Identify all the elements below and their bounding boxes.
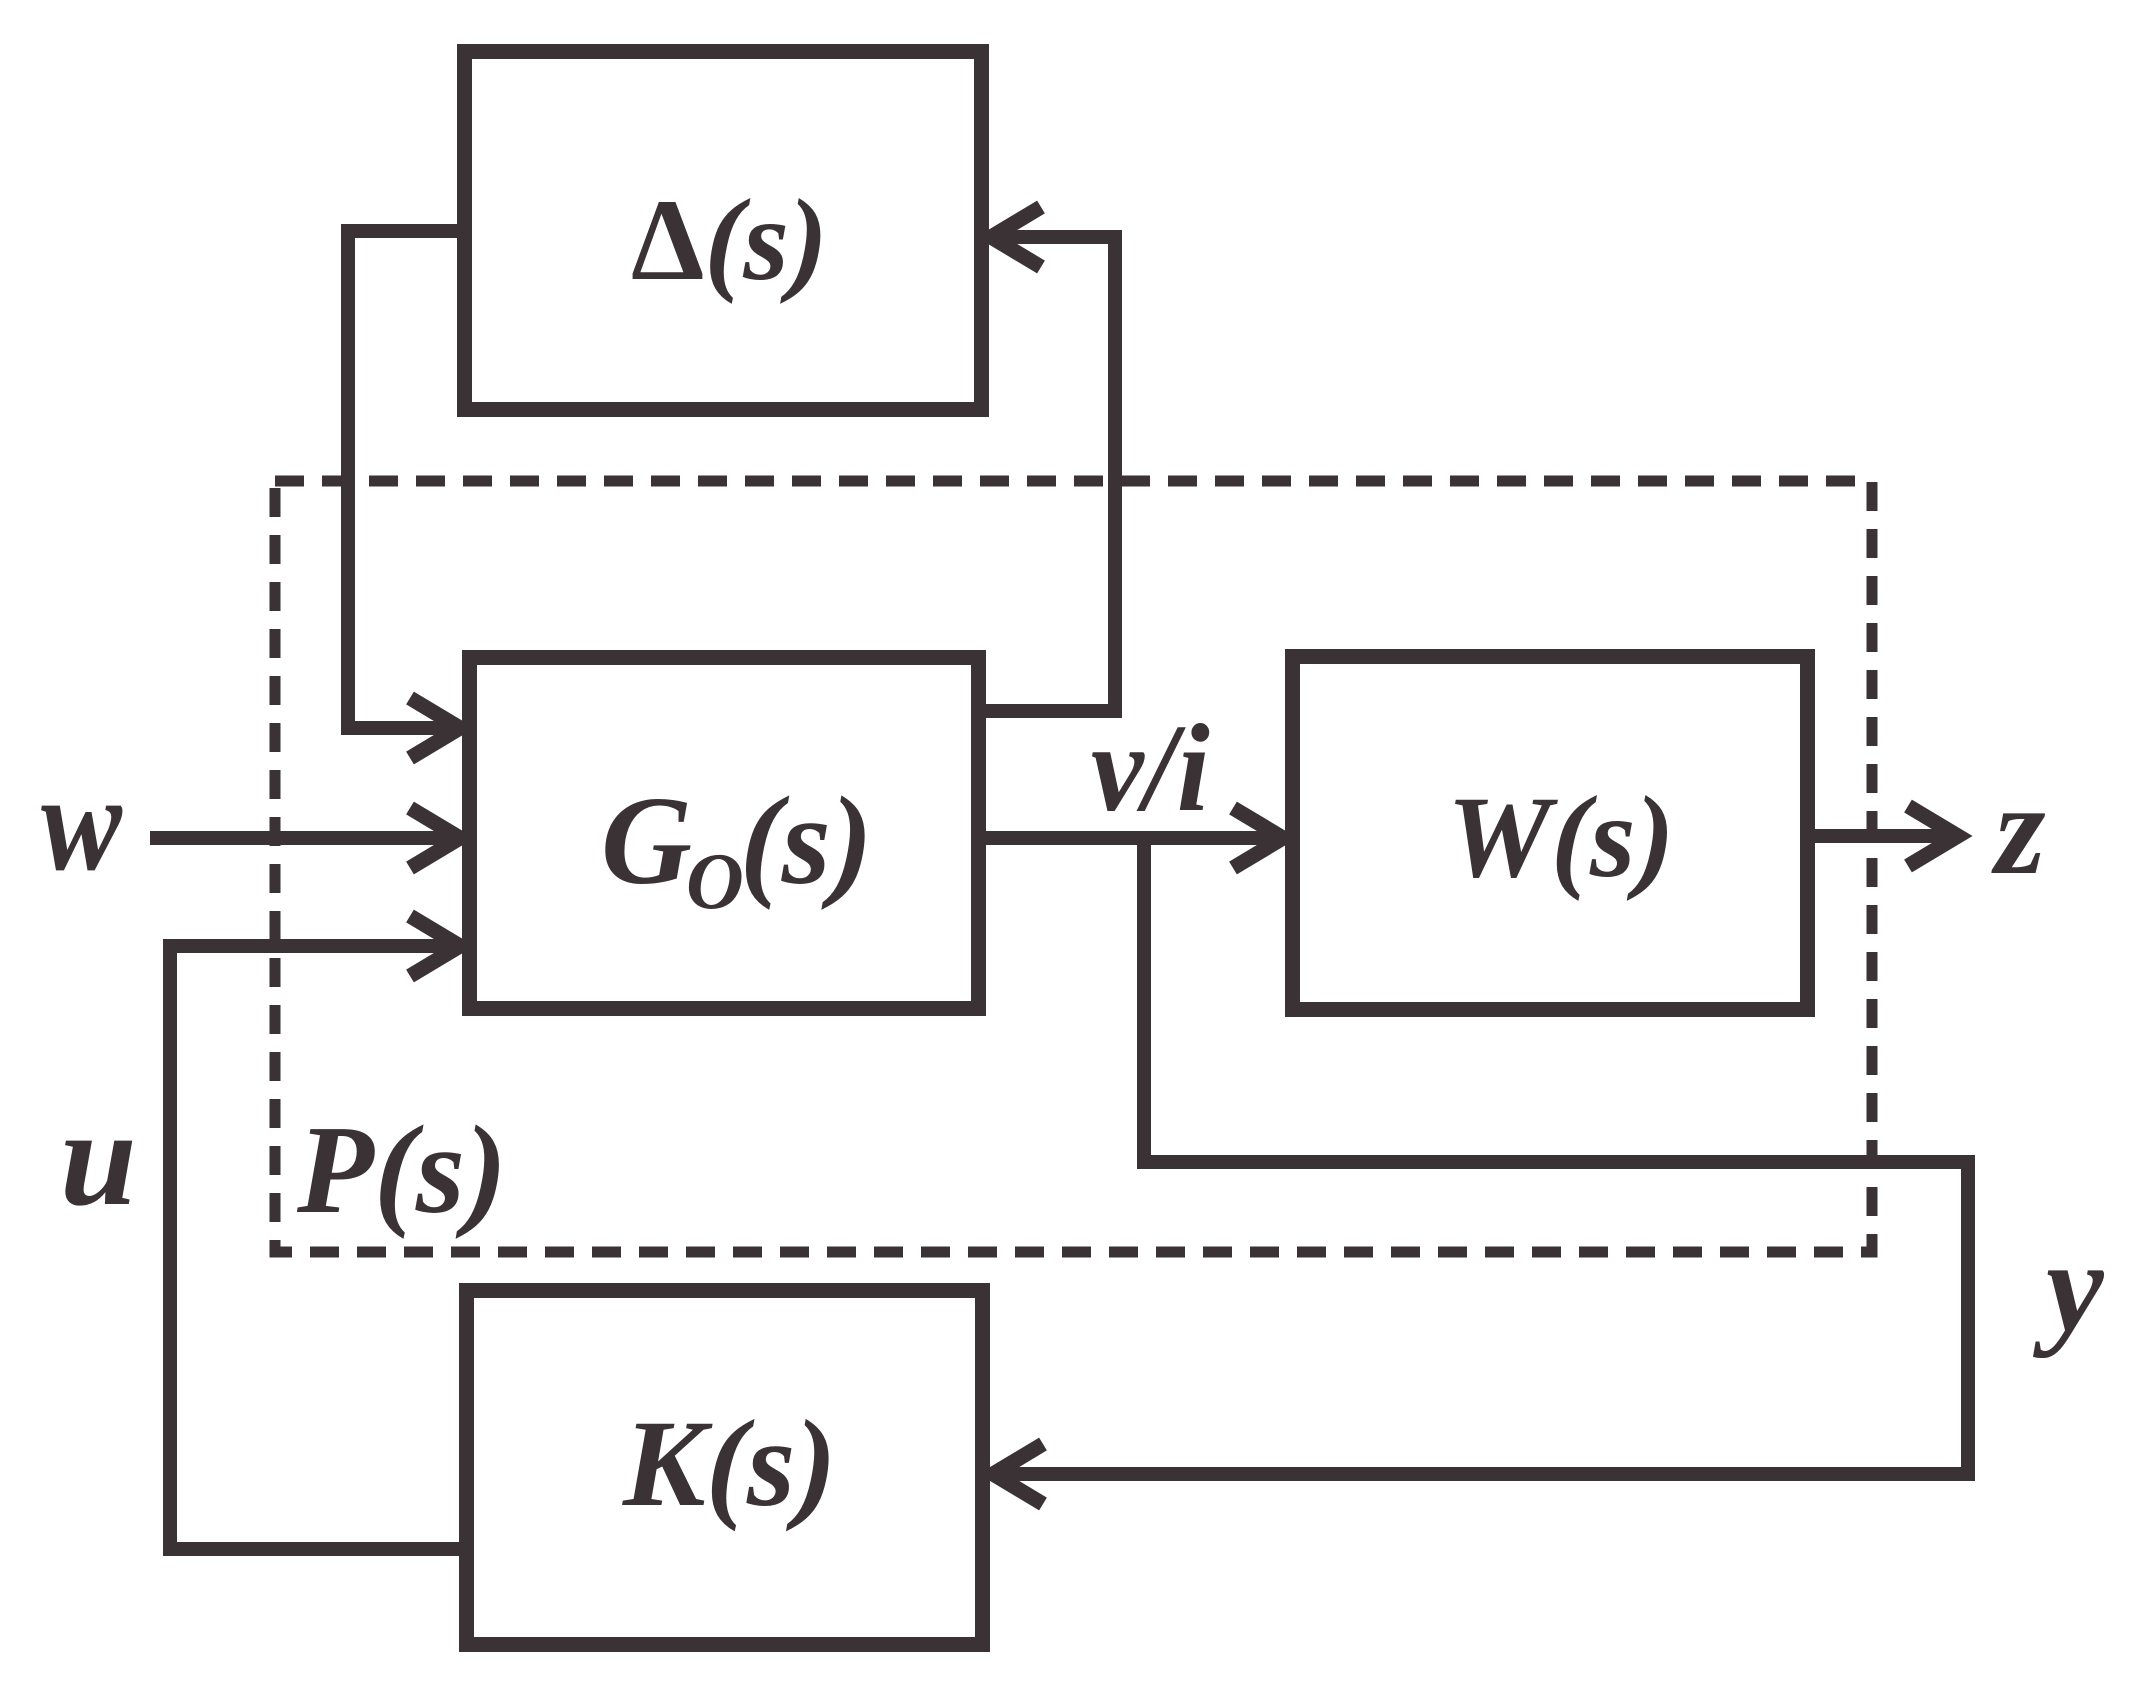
arrowhead z — [1908, 806, 1958, 866]
block W(s) — [1293, 657, 1808, 1010]
svg-text:v/i: v/i — [1091, 699, 1210, 837]
label y — [2032, 1215, 2105, 1359]
wire: junction drop to y and back into K(s) — [1006, 838, 1968, 1474]
svg-text:Δ(s): Δ(s) — [631, 176, 828, 305]
arrowhead u into Go(s) — [410, 916, 460, 976]
svg-text:K(s): K(s) — [622, 1395, 837, 1532]
label v/i — [1091, 699, 1210, 837]
svg-text:P(s): P(s) — [296, 1101, 507, 1240]
block Δ(s) — [465, 52, 982, 410]
wire: Δ(s) output to Go(s) input (left feedback) — [348, 231, 457, 728]
svg-text:u: u — [60, 1081, 137, 1234]
svg-text:z: z — [1991, 758, 2046, 902]
label P(s) — [296, 1101, 507, 1240]
label Go(s) — [601, 772, 873, 926]
label Δ(s) — [631, 176, 828, 305]
wire: w input — [150, 831, 450, 845]
label z — [1991, 758, 2046, 902]
arrowhead into Go(s) upper input — [410, 698, 460, 758]
dashed plant boundary box P(s) — [275, 481, 1872, 1252]
arrowhead into Δ(s) right input — [991, 207, 1041, 267]
svg-text:W(s): W(s) — [1447, 773, 1675, 902]
wire: u from K(s) back to Go(s) — [170, 946, 459, 1549]
wire: Go(s) output up to Δ(s) input (right feedback) — [986, 237, 1115, 711]
svg-text:w: w — [41, 747, 123, 900]
arrowhead into W(s) — [1233, 808, 1283, 868]
label u — [60, 1081, 137, 1234]
block Go(s) — [470, 658, 979, 1009]
wire: z output from W(s) — [1815, 829, 1945, 843]
block K(s) — [467, 1291, 983, 1645]
arrowhead w into Go(s) — [410, 808, 460, 868]
arrowhead into K(s) right input — [993, 1444, 1043, 1504]
label w — [41, 747, 123, 900]
wire: main output v/i from Go(s) to W(s) — [986, 831, 1272, 845]
label W(s) — [1447, 773, 1675, 902]
label K(s) — [622, 1395, 837, 1532]
